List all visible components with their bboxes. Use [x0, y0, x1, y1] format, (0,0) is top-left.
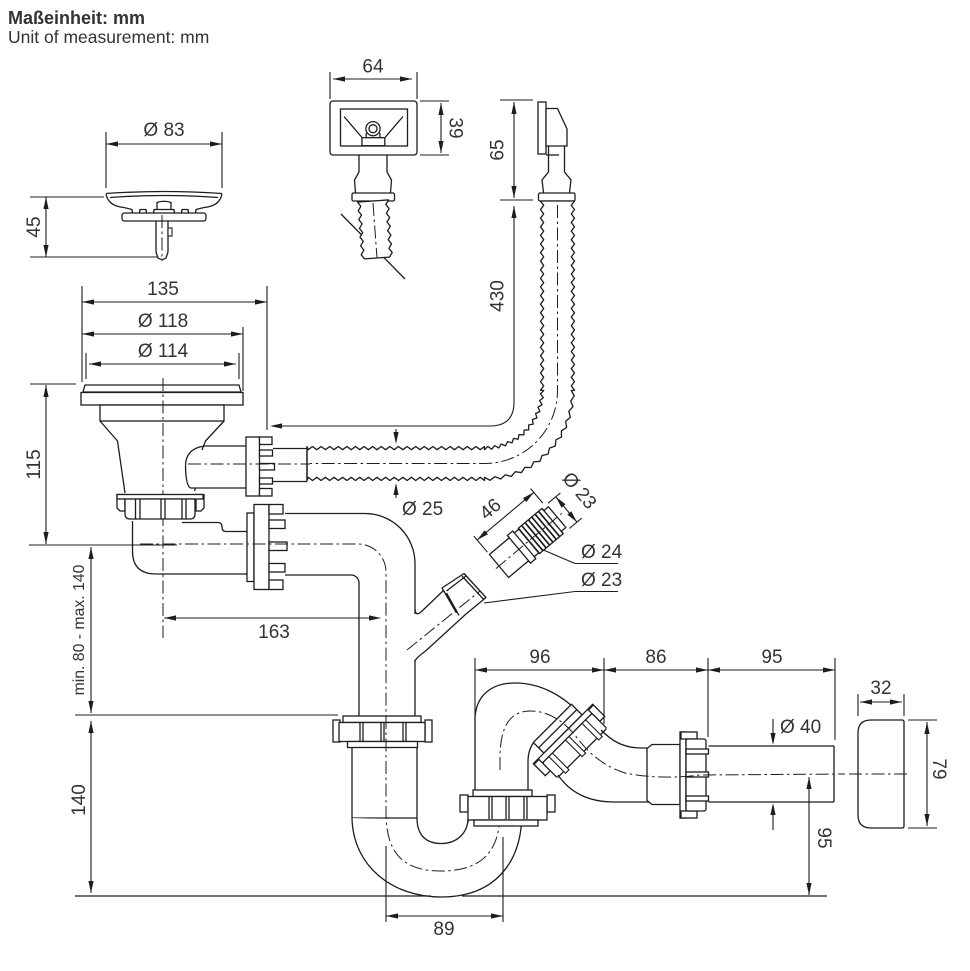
overflow inlet flange — [352, 193, 395, 201]
dimension extension lines 64 — [330, 72, 417, 99]
svg-text:Maßeinheit: mm: Maßeinheit: mm — [8, 8, 145, 28]
dimension extension lines 39 — [420, 101, 449, 155]
dimension extension lines Ø83 — [106, 132, 222, 188]
overflow inlet neck — [359, 155, 387, 172]
svg-text:140: 140 — [69, 784, 90, 816]
svg-text:Ø 24: Ø 24 — [581, 542, 623, 563]
outlet arch — [475, 683, 582, 790]
overflow elbow body — [546, 109, 567, 156]
dimension extension lines 32 — [858, 694, 904, 716]
title German — [8, 8, 145, 28]
svg-text:95: 95 — [761, 647, 782, 668]
svg-text:64: 64 — [362, 57, 384, 78]
dimension 163 — [164, 615, 381, 643]
dimension min. 80 - max. 140 — [71, 547, 94, 713]
svg-text:min. 80 - max. 140: min. 80 - max. 140 — [71, 564, 88, 695]
svg-text:Ø 114: Ø 114 — [138, 341, 189, 362]
dimension 64 — [333, 57, 412, 82]
svg-text:39: 39 — [445, 117, 466, 138]
strainer funnel — [100, 421, 224, 493]
dimension 135 — [82, 279, 267, 305]
outlet pipe centerline — [500, 711, 845, 777]
overflow hose centerline — [310, 205, 558, 464]
overflow inlet knob — [366, 122, 380, 139]
arch union nut 45deg — [523, 694, 614, 785]
tailpiece body — [185, 446, 246, 488]
wall cover plate — [849, 720, 907, 828]
overflow inlet vanes — [344, 117, 403, 138]
label Ø24 — [541, 542, 623, 564]
dimension 46 — [474, 489, 543, 553]
svg-text:95: 95 — [813, 827, 834, 848]
wall line — [75, 895, 827, 897]
label Ø23 — [484, 570, 622, 603]
dimension 140 — [69, 721, 94, 893]
dimension 39 — [438, 103, 465, 153]
dimension 95 — [708, 647, 835, 673]
dimension extension lines Ø114 — [86, 353, 239, 379]
svg-text:Ø 118: Ø 118 — [138, 311, 188, 332]
dimension 79 — [924, 722, 949, 826]
title English — [8, 27, 209, 47]
siphon cup body — [133, 521, 249, 574]
dimension 86 — [604, 647, 708, 673]
svg-text:45: 45 — [24, 216, 45, 237]
svg-text:86: 86 — [645, 647, 666, 668]
dimension Ø25 — [393, 429, 443, 520]
svg-text:Unit of measurement: mm: Unit of measurement: mm — [8, 27, 209, 47]
svg-text:Ø 23: Ø 23 — [581, 570, 622, 591]
dimension Ø23 rotated — [548, 469, 600, 529]
dimension extension lines 65 — [500, 100, 533, 200]
strainer flange — [81, 393, 243, 406]
svg-text:89: 89 — [433, 919, 454, 940]
dimension Ø118 — [82, 311, 243, 337]
overflow elbow flange — [539, 193, 576, 201]
svg-text:Ø 83: Ø 83 — [143, 120, 184, 141]
svg-text:135: 135 — [147, 279, 179, 300]
overflow inlet window — [341, 109, 408, 146]
dimension Ø83 — [106, 120, 222, 147]
trap inlet nut — [333, 716, 432, 748]
hose adapter 46mm — [489, 507, 566, 578]
dimension 32 — [860, 678, 902, 705]
tailpiece neck — [273, 449, 307, 482]
overflow inlet cone — [355, 172, 392, 193]
tailpiece centerline — [188, 463, 310, 465]
dimension extension lines 79 — [908, 720, 937, 828]
dishwasher branch nozzle — [407, 571, 489, 662]
dimension 430 — [270, 206, 517, 429]
strainer upper band — [100, 405, 224, 421]
tailpiece collar caps — [260, 437, 273, 496]
trap U-bend — [352, 812, 522, 897]
overflow elbow neck — [549, 146, 565, 172]
dimension extension line min-max — [75, 714, 338, 716]
svg-text:32: 32 — [870, 678, 891, 699]
strainer plug bowl — [106, 192, 222, 215]
dimension extension line Ø118 — [242, 327, 244, 391]
dimension Ø40 — [770, 717, 821, 830]
trap riser nut — [460, 790, 555, 826]
dimension 95 vertical — [806, 777, 834, 895]
overflow inlet corrugated stub — [358, 200, 393, 259]
svg-text:79: 79 — [928, 758, 949, 779]
tailpiece collar teeth — [260, 450, 275, 484]
svg-text:65: 65 — [488, 139, 509, 160]
strainer centerline — [162, 378, 164, 638]
overflow elbow clamp plate — [538, 102, 546, 154]
dimension extension lines 115 — [29, 384, 177, 545]
strainer nut — [117, 495, 204, 520]
dimension Ø114 — [89, 341, 236, 367]
overflow inlet body — [330, 101, 417, 155]
dimension extension lines 135 — [82, 286, 267, 430]
svg-text:430: 430 — [488, 280, 509, 312]
dimension extension lines 45 — [30, 197, 158, 257]
dimension 96 — [475, 647, 604, 673]
outlet union nut — [647, 732, 709, 818]
dimension 45 — [24, 197, 49, 257]
svg-text:115: 115 — [24, 449, 45, 479]
dimension extension lines 96 86 95 — [475, 658, 835, 740]
strainer rim — [83, 385, 241, 392]
overflow hose — [307, 201, 575, 481]
svg-text:96: 96 — [529, 647, 550, 668]
overflow elbow cone — [542, 172, 571, 193]
outlet S-pipe — [558, 730, 650, 802]
cup union nut — [247, 505, 287, 590]
outlet pipe and elbow — [285, 514, 415, 717]
svg-text:Ø 40: Ø 40 — [780, 717, 821, 738]
trap inlet tube — [352, 748, 417, 819]
overflow inlet bracket — [362, 138, 385, 146]
svg-text:Ø 25: Ø 25 — [402, 499, 443, 520]
dimension 89 — [386, 913, 503, 940]
tailpiece collar — [246, 437, 260, 496]
dimension extension lines 89 — [386, 837, 503, 922]
svg-text:163: 163 — [258, 622, 290, 643]
sink wall diagonal line — [341, 214, 405, 279]
outlet centerline — [140, 544, 386, 716]
dimension 115 — [24, 385, 49, 544]
dimension 65 — [488, 102, 517, 198]
outlet pipe end — [709, 746, 835, 802]
trap centerline — [386, 716, 500, 871]
strainer plug stem — [156, 215, 172, 261]
strainer plug flange — [122, 213, 206, 221]
